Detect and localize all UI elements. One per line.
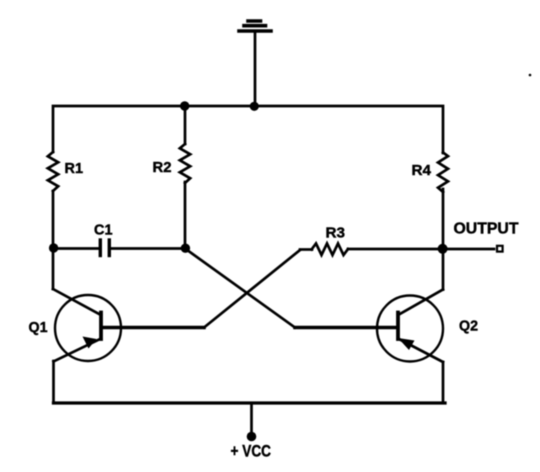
svg-text:R4: R4: [412, 162, 432, 179]
svg-text:R2: R2: [153, 159, 172, 176]
svg-text:OUTPUT: OUTPUT: [454, 221, 519, 238]
svg-text:R3: R3: [326, 225, 346, 242]
svg-text:Q2: Q2: [459, 318, 478, 335]
svg-text:R1: R1: [65, 160, 84, 177]
svg-text:C1: C1: [94, 222, 113, 239]
svg-text:+ VCC: + VCC: [231, 443, 272, 461]
svg-text:Q1: Q1: [29, 319, 48, 336]
